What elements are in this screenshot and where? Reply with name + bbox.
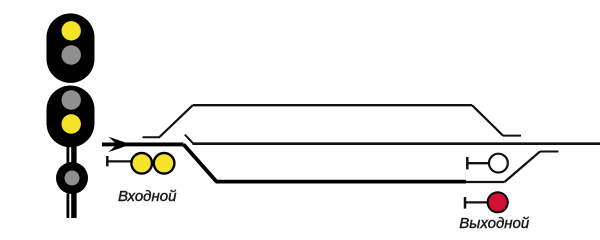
wire: bold track 3: [216, 180, 467, 184]
wire: bold approach line (route): [102, 142, 184, 146]
mast lower segment (double line): [67, 194, 77, 219]
exit signal (red): mast tick: [464, 197, 467, 209]
wire: thin main line: [193, 142, 600, 145]
wire: right turnout diagonal up: [505, 152, 541, 183]
exit signal (red): stem: [465, 201, 488, 203]
entry signal symbol: mast tick: [106, 156, 109, 166]
wire: loop right diagonal: [472, 105, 503, 135]
loop right switch tick: [503, 135, 521, 137]
right switch tick: [540, 151, 559, 153]
exit signal (white): mast tick: [466, 157, 469, 169]
head 1 yellow lamp: [61, 21, 80, 40]
entry signal yellow lamp 1: [131, 153, 152, 174]
entry signal yellow lamp 2: [154, 153, 175, 174]
entry signal symbol: stem: [107, 160, 131, 162]
wire: loop left diagonal: [160, 105, 193, 137]
mast upper segment (double line): [67, 147, 77, 164]
exit signal (white): stem: [467, 162, 489, 164]
svg-text:Входной: Входной: [118, 188, 177, 205]
wire: track 3 thin continuation: [466, 181, 505, 183]
wire: bold turnout diagonal to track 3: [184, 144, 217, 181]
direction arrow on approach line: [109, 137, 132, 152]
exit signal red lamp: [488, 192, 508, 212]
head 2 yellow lamp: [61, 114, 80, 133]
head 1 gray lamp: [61, 45, 80, 64]
signal head 2 (two lamps): [47, 86, 95, 148]
head 3 gray lamp: [65, 171, 80, 186]
signal head 3 (small, one lamp): [56, 162, 88, 194]
switch blade mark at left turnout: [185, 135, 193, 144]
wire: loop top track: [193, 104, 472, 106]
head 2 gray lamp: [61, 90, 80, 109]
signal head 1 (top, two lamps): [47, 13, 95, 83]
svg-text:Выходной: Выходной: [459, 215, 530, 232]
exit signal white lamp: [489, 154, 508, 173]
loop left switch tick: [143, 136, 161, 138]
